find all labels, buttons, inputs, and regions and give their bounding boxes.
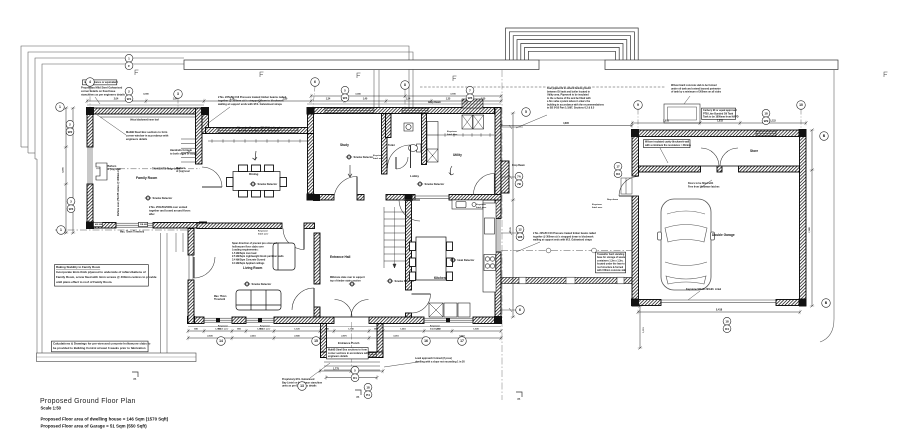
svg-text:Keystone: Keystone: [258, 230, 269, 233]
note timber beams top: [207, 95, 287, 124]
svg-text:be provided to Building Contro: be provided to Building Control at least…: [53, 346, 146, 350]
kitchen worktop east: [483, 203, 496, 292]
svg-text:18: 18: [366, 385, 370, 389]
cased opening hall to kitchen passage: [415, 196, 449, 199]
oil tank plinth above garage: [664, 104, 700, 123]
living room side passage door: [194, 257, 215, 278]
svg-text:together @ 300mm c/c's strappe: together @ 300mm c/c's strapped down to …: [218, 98, 284, 102]
svg-text:W3: W3: [69, 207, 74, 211]
toilet east partition wall: [422, 114, 427, 165]
svg-text:Alternative Keystone S/N-90 Ho: Alternative Keystone S/N-90 Hot dip galv: [237, 127, 282, 130]
note keystone lintel over 2: [218, 325, 229, 331]
svg-text:Keystone: Keystone: [592, 203, 603, 206]
family wing corner block SE: [199, 222, 207, 230]
svg-text:Treated/or hard standing: Treated/or hard standing: [597, 253, 625, 256]
note millstone slate front door: [330, 276, 365, 282]
svg-text:8: 8: [404, 83, 406, 87]
top boundary wall band left segment: [184, 60, 539, 70]
living room bay window east: [246, 317, 274, 323]
study east partition wall: [382, 114, 388, 175]
svg-text:roof structure & formed: roof structure & formed: [597, 266, 624, 269]
svg-text:5,418: 5,418: [716, 309, 723, 312]
label box family sill east: [139, 222, 149, 226]
marker pair family interior: [125, 54, 133, 69]
family wing corner block SW: [86, 222, 94, 230]
node symbol on beam centreline 2: [592, 248, 597, 253]
svg-text:steel lintel over Max. 75: steel lintel over Max. 75mm Threshold: [237, 130, 279, 133]
grid marker right kitchen: [516, 306, 525, 315]
garage corner block NW: [631, 129, 639, 137]
living room sofa: [236, 290, 281, 310]
house right wall lower: [495, 252, 501, 324]
svg-text:Lobby: Lobby: [410, 174, 419, 178]
study span arrow: [348, 165, 352, 177]
porch entrance steps: [324, 362, 380, 370]
dimension stubs right of house: [501, 125, 523, 312]
family room left window: [87, 147, 93, 184]
svg-text:lintel over: lintel over: [592, 206, 602, 209]
dining living partition wall: [197, 223, 282, 229]
svg-text:lintel over: lintel over: [476, 206, 486, 209]
dimension chain left of family: [64, 107, 68, 235]
lobby to hall door: [399, 200, 420, 221]
courtyard passage verticals left of living room: [161, 233, 184, 353]
svg-text:Living Room: Living Room: [243, 266, 262, 270]
svg-text:W6: W6: [468, 96, 473, 100]
hall north partition west2: [357, 195, 364, 201]
svg-text:4: 4: [89, 80, 91, 84]
marker below living west: [217, 337, 226, 346]
note corner detail box top-left: [83, 80, 119, 85]
partition corner block hall NE: [405, 194, 413, 201]
dining top wall: [206, 128, 312, 134]
svg-text:Keystone: Keystone: [260, 325, 271, 328]
svg-text:18: 18: [725, 319, 729, 323]
svg-text:dwelling with a slope not exce: dwelling with a slope not exceeding 1 in…: [415, 360, 465, 363]
kitchen north worktop: [452, 200, 483, 209]
garage side door: [619, 177, 639, 197]
front entrance double door right leaf: [351, 300, 369, 318]
note waste containers box: [596, 252, 627, 273]
window marker pair study top: [341, 86, 349, 101]
svg-text:1,34: 1,34: [326, 98, 331, 101]
svg-text:Smoke Detector: Smoke Detector: [258, 182, 278, 186]
family room fireplace platform: [96, 163, 107, 180]
svg-text:16: 16: [424, 339, 428, 343]
note ridge beam family: [152, 168, 180, 171]
svg-text:0.4 kN/Sqm Applied ceilings: 0.4 kN/Sqm Applied ceilings: [232, 262, 265, 265]
svg-text:Scale 1:50: Scale 1:50: [41, 406, 62, 411]
partition corner block hall NW: [313, 194, 320, 201]
grid marker D top lobby: [401, 81, 410, 90]
family room bottom wall west: [87, 223, 116, 229]
beam line over dining with ticks: [208, 139, 307, 142]
svg-text:Platform: Platform: [107, 165, 116, 168]
svg-text:Smoke Detector: Smoke Detector: [395, 279, 415, 283]
garage corner block NE: [799, 129, 807, 137]
svg-text:D4: D4: [725, 327, 729, 331]
family wing minstrel steps: [181, 139, 196, 162]
dimension chain top of house: [86, 99, 503, 103]
hall to kitchen door: [412, 294, 431, 313]
svg-text:F/B-909: F/B-909: [140, 224, 148, 226]
note bay lintel porch: [282, 363, 330, 388]
smoke detector entrance hall: [349, 282, 355, 286]
secondary top dimension row: [87, 104, 501, 105]
porch east sidelight: [367, 352, 377, 358]
family room right wall: [196, 108, 203, 164]
living hall partition upper: [314, 233, 320, 284]
family room left wall upper: [87, 108, 93, 147]
garage store partition wall east: [739, 166, 800, 172]
note timber beams between: [516, 232, 596, 252]
house bottom wall seg kitchen east: [473, 317, 501, 324]
house bottom wall seg living mid: [232, 317, 246, 324]
svg-text:containers 1.2m x 1.2m,: containers 1.2m x 1.2m,: [597, 259, 624, 262]
note keystone lintel over 5: [373, 154, 384, 160]
svg-text:corner window in accordance wi: corner window in accordance with: [126, 133, 169, 137]
beam line over utility with ticks: [433, 133, 494, 136]
car in garage plan view: [658, 199, 715, 290]
node symbol on beam centreline 1: [546, 248, 551, 253]
note keystone lintel over 3: [260, 325, 271, 331]
svg-text:of (top) level: of (top) level: [176, 170, 190, 173]
dimension chain below house 2: [187, 336, 503, 340]
site boundary nested outline lines top-left: [21, 46, 413, 353]
svg-text:Smoke Detector: Smoke Detector: [252, 282, 272, 286]
svg-text:2,630: 2,630: [207, 336, 213, 338]
marker below kitchen east: [458, 337, 467, 346]
svg-text:until plans effect to roof of: until plans effect to roof of Family Roo…: [56, 280, 112, 284]
note multib porch box: [327, 348, 370, 359]
window marker pair family top: [125, 87, 133, 102]
svg-text:6: 6: [519, 308, 521, 312]
note platform left: [107, 165, 121, 171]
garage left wall lower: [632, 196, 639, 306]
note keystone lintel over 6: [476, 203, 487, 209]
svg-text:Toilet: Toilet: [388, 143, 395, 147]
svg-text:W4: W4: [343, 96, 348, 100]
svg-text:W1: W1: [127, 97, 132, 101]
svg-text:1,35: 1,35: [446, 99, 451, 101]
note proprietary corner stanchions: [81, 86, 126, 105]
dining table: [233, 172, 280, 191]
svg-text:Proposed Floor area of dwellin: Proposed Floor area of dwelling house = …: [41, 417, 169, 422]
dimension chain left secondary: [71, 107, 75, 235]
living room left wall lower: [188, 280, 194, 324]
marker pair porch below: [364, 383, 372, 398]
svg-text:Heat Detector: Heat Detector: [458, 258, 475, 262]
garage top wall: [632, 130, 806, 137]
note threshold family: [120, 232, 145, 234]
grid marker left family: [56, 103, 65, 112]
svg-text:Entrance Hall: Entrance Hall: [330, 255, 350, 259]
ridge beam dash-dot line family room: [96, 168, 200, 170]
smoke detector porch: [387, 279, 414, 283]
living hall partition stub: [314, 307, 320, 317]
living room armchair: [273, 243, 295, 270]
garage side door external step: [621, 178, 632, 194]
house bottom wall seg living east: [274, 317, 334, 324]
svg-text:F: F: [128, 64, 130, 68]
svg-text:with a minimum fire resistance: with a minimum fire resistance = 30mins: [645, 144, 692, 147]
svg-text:1,74: 1,74: [230, 98, 235, 101]
note drop beam utility: [512, 164, 525, 167]
garage store door right leaf: [720, 148, 738, 166]
garage right wall: [800, 130, 807, 306]
svg-text:4,995: 4,995: [62, 166, 65, 172]
svg-text:Kitchen: Kitchen: [434, 276, 446, 280]
svg-text:Calculations & Drawings for pr: Calculations & Drawings for pre-stressed…: [53, 342, 151, 346]
svg-text:located under the lean-to: located under the lean-to: [597, 263, 625, 266]
svg-text:35: 35: [517, 397, 521, 401]
svg-text:Keystone: Keystone: [447, 130, 458, 133]
site canopy verticals above study: [374, 70, 379, 107]
section mark 1: [132, 372, 138, 381]
rainwater pipe mark 1: [135, 70, 139, 75]
external flue on right wall: [501, 161, 509, 193]
study top window: [325, 108, 374, 114]
house right wall upper: [495, 108, 501, 219]
svg-text:Keystone: Keystone: [476, 203, 487, 206]
utility flue boxes above top wall: [462, 99, 483, 108]
vertical grid line between house and garage: [501, 70, 503, 400]
lobby linen cupboard: [427, 122, 438, 163]
family room bottom window: [116, 222, 153, 228]
dimension porch lower: [325, 375, 379, 379]
note platform right: [176, 167, 190, 173]
svg-text:Velux blackened inner leaf: Velux blackened inner leaf: [130, 120, 159, 122]
family wing corner block NW: [86, 107, 94, 115]
grid centreline between house and garage: [501, 250, 638, 252]
kitchen hall partition stub lower: [406, 313, 412, 317]
svg-text:3: 3: [177, 92, 179, 96]
house bottom wall seg living west: [188, 317, 204, 324]
svg-text:1,630: 1,630: [473, 329, 479, 331]
svg-text:corner details on fixed base: corner details on fixed base: [81, 89, 116, 93]
timber beam band between house and garage: [501, 277, 638, 284]
svg-text:Store: Store: [750, 149, 758, 153]
porch right wall: [377, 324, 383, 358]
marker porch side: [298, 382, 307, 391]
top wall corner block at study: [307, 107, 315, 115]
grid marker garage right bottom: [822, 299, 831, 308]
marker pair below hall: [351, 366, 359, 381]
kitchen north partition: [449, 195, 501, 201]
svg-text:engineers details: engineers details: [126, 137, 148, 141]
note alternative keystone: [237, 127, 282, 133]
porch centreline vertical: [351, 322, 353, 371]
svg-text:Keystone S/N-90 290x90. Lintel: Keystone S/N-90 290x90. Lintel: [686, 288, 722, 291]
svg-text:1,815: 1,815: [257, 329, 263, 331]
rainwater pipe mark 5: [884, 72, 888, 77]
garage corner block SW: [631, 299, 639, 307]
garage bottom wall east stub: [776, 300, 806, 306]
marker below living east: [312, 337, 321, 346]
svg-text:2,870: 2,870: [341, 336, 347, 338]
note keystone lintel over 7: [447, 130, 458, 136]
svg-text:1: 1: [59, 105, 61, 109]
porch west sidelight: [327, 352, 337, 358]
svg-text:of tank by a minimum of 300mm: of tank by a minimum of 300mm on all sid…: [671, 91, 722, 94]
window marker pair left family: [66, 120, 74, 135]
house bottom wall seg hall east: [369, 317, 424, 324]
svg-text:Free from Hardware latches: Free from Hardware latches: [688, 185, 720, 188]
svg-text:1,740: 1,740: [348, 328, 354, 331]
family room corner window inner leaf line: [100, 116, 196, 118]
svg-text:35: 35: [356, 395, 360, 399]
toilet WC pan: [408, 144, 421, 152]
svg-text:Max. 75mm: Max. 75mm: [214, 296, 226, 298]
toilet door: [396, 157, 408, 169]
svg-text:1,860: 1,860: [435, 329, 441, 331]
label box family sill west: [94, 222, 104, 226]
svg-text:1,815: 1,815: [717, 121, 723, 123]
family wing step wall to dining: [202, 108, 209, 134]
nested stepped gate recess outline: [506, 28, 639, 60]
svg-text:top of timber stairs section: top of timber stairs section: [330, 279, 361, 282]
svg-text:Keystone: Keystone: [373, 154, 384, 157]
svg-text:1,790: 1,790: [215, 329, 221, 331]
svg-text:stanchions as per engineers de: stanchions as per engineers details: [81, 92, 126, 96]
dimension chain right of house: [511, 112, 515, 319]
svg-text:lintel over: lintel over: [373, 157, 383, 160]
note keystone lintel over 1: [258, 230, 269, 236]
svg-text:Family Room, screw fixed with: Family Room, screw fixed with 4mm screws…: [56, 275, 157, 279]
svg-text:1,80: 1,80: [283, 99, 288, 101]
dimension chain right of garage: [810, 129, 814, 308]
note max floor headroom: [214, 296, 226, 301]
note raking stability box: [55, 265, 157, 287]
svg-text:1,115: 1,115: [770, 121, 776, 123]
svg-text:W2: W2: [68, 130, 73, 134]
dimension line between house garage: [500, 123, 634, 127]
svg-text:together and boxed around floo: together and boxed around floors: [149, 208, 191, 212]
svg-text:1,120: 1,120: [294, 329, 300, 331]
svg-text:Tank to be 1800mm from NAPD: Tank to be 1800mm from NAPD: [703, 116, 739, 119]
kitchen south window: [424, 317, 473, 323]
svg-text:Proposed Ground Floor Plan: Proposed Ground Floor Plan: [40, 398, 136, 405]
step wall dining to study: [308, 108, 314, 134]
grid marker A top family: [86, 78, 95, 87]
svg-text:engineers details: engineers details: [328, 355, 349, 358]
paved path bar bottom-left: [37, 353, 197, 362]
living room bay window west: [204, 317, 232, 323]
svg-text:12: 12: [518, 227, 522, 231]
partition east of dining opening: [304, 223, 315, 229]
marker pair garage below: [723, 317, 731, 332]
svg-text:Smoke Detector: Smoke Detector: [153, 196, 173, 200]
svg-text:4,865: 4,865: [563, 122, 569, 125]
smoke detector lobby: [417, 182, 444, 186]
house south sill line: [188, 326, 501, 328]
note carbery oil tank box: [702, 108, 739, 119]
section mark 2: [355, 390, 361, 399]
svg-text:35: 35: [133, 377, 137, 381]
dimension chain garage left lower: [638, 305, 642, 350]
svg-text:9: 9: [637, 103, 639, 107]
svg-text:Raking Stability to Family Roo: Raking Stability to Family Room: [56, 265, 101, 269]
dining top window: [218, 128, 298, 134]
study west wall corner block: [307, 194, 315, 201]
svg-text:2,640: 2,640: [294, 335, 300, 338]
svg-text:2 No. 225x50 C16 Pressure trea: 2 No. 225x50 C16 Pressure treated timber…: [218, 95, 287, 99]
svg-text:1,415: 1,415: [400, 328, 406, 331]
grid marker D stem: [404, 90, 406, 108]
utility span arrow: [449, 166, 454, 175]
svg-text:2,415: 2,415: [250, 335, 256, 338]
grid marker right top: [522, 108, 531, 117]
garage store partition centre stub: [717, 166, 722, 172]
rainwater pipe mark 2: [260, 72, 264, 77]
bottom wall corner block SE: [494, 316, 502, 324]
svg-text:5: 5: [525, 110, 527, 114]
kitchen hob circles: [484, 255, 496, 271]
note level approach: [384, 357, 465, 367]
note drop beam top: [428, 101, 441, 104]
dimension chain below house 1: [187, 329, 503, 333]
svg-text:Smoke Detector: Smoke Detector: [354, 155, 374, 159]
svg-text:2,04: 2,04: [114, 98, 119, 101]
porch bottom wall west stub: [321, 352, 337, 358]
family room bottom wall east: [153, 223, 206, 229]
front entrance double door left leaf: [335, 300, 353, 318]
garage left wall upper: [632, 130, 639, 176]
toilet basin: [404, 123, 413, 131]
smoke detector dining: [250, 182, 277, 186]
grid marker C stem: [313, 87, 315, 108]
kitchen south appliances: [429, 303, 470, 317]
svg-text:18: 18: [764, 111, 768, 115]
note hollowcore calcs box: [52, 341, 151, 352]
svg-text:Platform: Platform: [176, 167, 185, 170]
svg-text:W9: W9: [764, 119, 769, 123]
svg-text:8,135: 8,135: [510, 226, 512, 232]
kitchen east window: [495, 218, 501, 252]
utility appliances: [462, 115, 484, 129]
grid marker F garage east: [797, 101, 806, 110]
svg-text:Proprietary Mild Steel Galvani: Proprietary Mild Steel Galvanised: [81, 86, 123, 90]
smoke detector family room: [145, 196, 172, 200]
grid marker F stem: [800, 110, 802, 131]
svg-text:Handrails formed: Handrails formed: [170, 148, 192, 152]
svg-text:base for storage of waste: base for storage of waste: [597, 256, 626, 259]
living room side door threshold lines: [189, 255, 193, 280]
grid marker E garage west: [634, 101, 643, 110]
note garage doors latches: [688, 180, 720, 188]
window marker pair utility top: [466, 86, 474, 101]
grid centreline left horizontal: [55, 229, 190, 231]
grid marker E stem: [637, 110, 639, 131]
fuel pipework dashed line: [420, 86, 665, 88]
rainwater pipe mark 4: [453, 76, 457, 81]
grid marker B top family east: [174, 90, 183, 99]
svg-text:Keystone: Keystone: [430, 325, 441, 328]
svg-text:14: 14: [219, 339, 223, 343]
svg-text:10: 10: [799, 103, 803, 107]
kitchen chairs: [410, 242, 453, 281]
svg-text:Dining: Dining: [249, 172, 258, 176]
svg-text:Family Room: Family Room: [136, 176, 157, 180]
study utility top wall: [308, 108, 502, 114]
note velux inner leaf: [130, 120, 159, 122]
svg-text:Drop Beam: Drop Beam: [428, 101, 441, 104]
porch left wall: [321, 324, 327, 358]
svg-text:in BS 5410 Part 1:1997, Sectio: in BS 5410 Part 1:1997, Sections 6.2 & 8…: [547, 107, 595, 110]
svg-text:3,215: 3,215: [393, 336, 399, 338]
svg-text:D1: D1: [353, 376, 357, 380]
note keystone lintel over 8: [592, 203, 603, 209]
